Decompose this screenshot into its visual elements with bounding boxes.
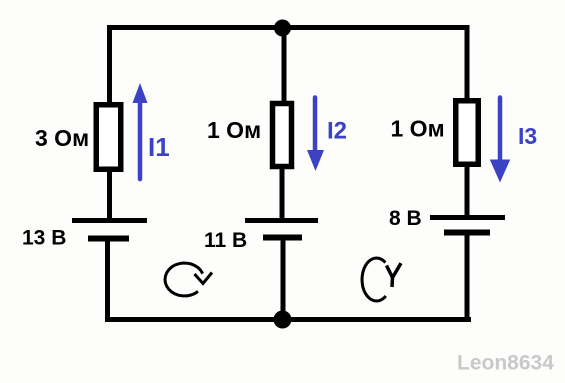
svg-text:3 Ом: 3 Ом xyxy=(35,125,89,151)
node junction top xyxy=(274,20,291,37)
wire middle branch middle xyxy=(280,167,285,221)
current arrow I3 down xyxy=(490,98,510,183)
wire left branch middle xyxy=(107,169,112,221)
resistor R2 1 Ом xyxy=(273,104,292,167)
battery V2 11 В negative plate xyxy=(263,235,302,241)
current arrow I1 up xyxy=(133,83,148,179)
svg-text:13 В: 13 В xyxy=(22,227,66,250)
current arrow I2 down xyxy=(307,98,324,172)
loop arrow left clockwise xyxy=(165,263,212,296)
battery V2 11 В positive plate xyxy=(245,218,318,223)
wire top horizontal xyxy=(107,25,469,30)
svg-text:1 Ом: 1 Ом xyxy=(391,116,445,142)
resistor R1 3 Ом xyxy=(96,105,121,170)
battery V1 13 В positive plate xyxy=(72,218,147,223)
battery V3 8 В positive plate xyxy=(430,215,505,220)
wire left branch lower xyxy=(105,238,110,322)
wire right branch lower xyxy=(465,232,470,322)
wire left branch upper xyxy=(107,25,112,106)
svg-text:I1: I1 xyxy=(148,132,170,162)
battery V1 13 В negative plate xyxy=(88,236,129,242)
svg-text:1 Ом: 1 Ом xyxy=(207,117,261,143)
node junction bottom xyxy=(274,311,292,329)
wire middle branch upper xyxy=(282,27,287,104)
loop arrow right clockwise xyxy=(362,258,401,301)
wire right branch upper xyxy=(465,25,470,101)
battery V3 8 В negative plate xyxy=(444,230,490,236)
svg-text:Leon8634: Leon8634 xyxy=(457,352,554,375)
svg-text:11 В: 11 В xyxy=(204,229,247,252)
svg-text:I2: I2 xyxy=(327,118,347,145)
svg-text:8 В: 8 В xyxy=(389,207,422,230)
wire middle branch lower xyxy=(281,237,286,322)
wire bottom horizontal xyxy=(105,317,471,322)
wire right branch middle xyxy=(465,164,470,218)
svg-text:I3: I3 xyxy=(518,123,537,149)
resistor R3 1 Ом xyxy=(456,101,479,165)
